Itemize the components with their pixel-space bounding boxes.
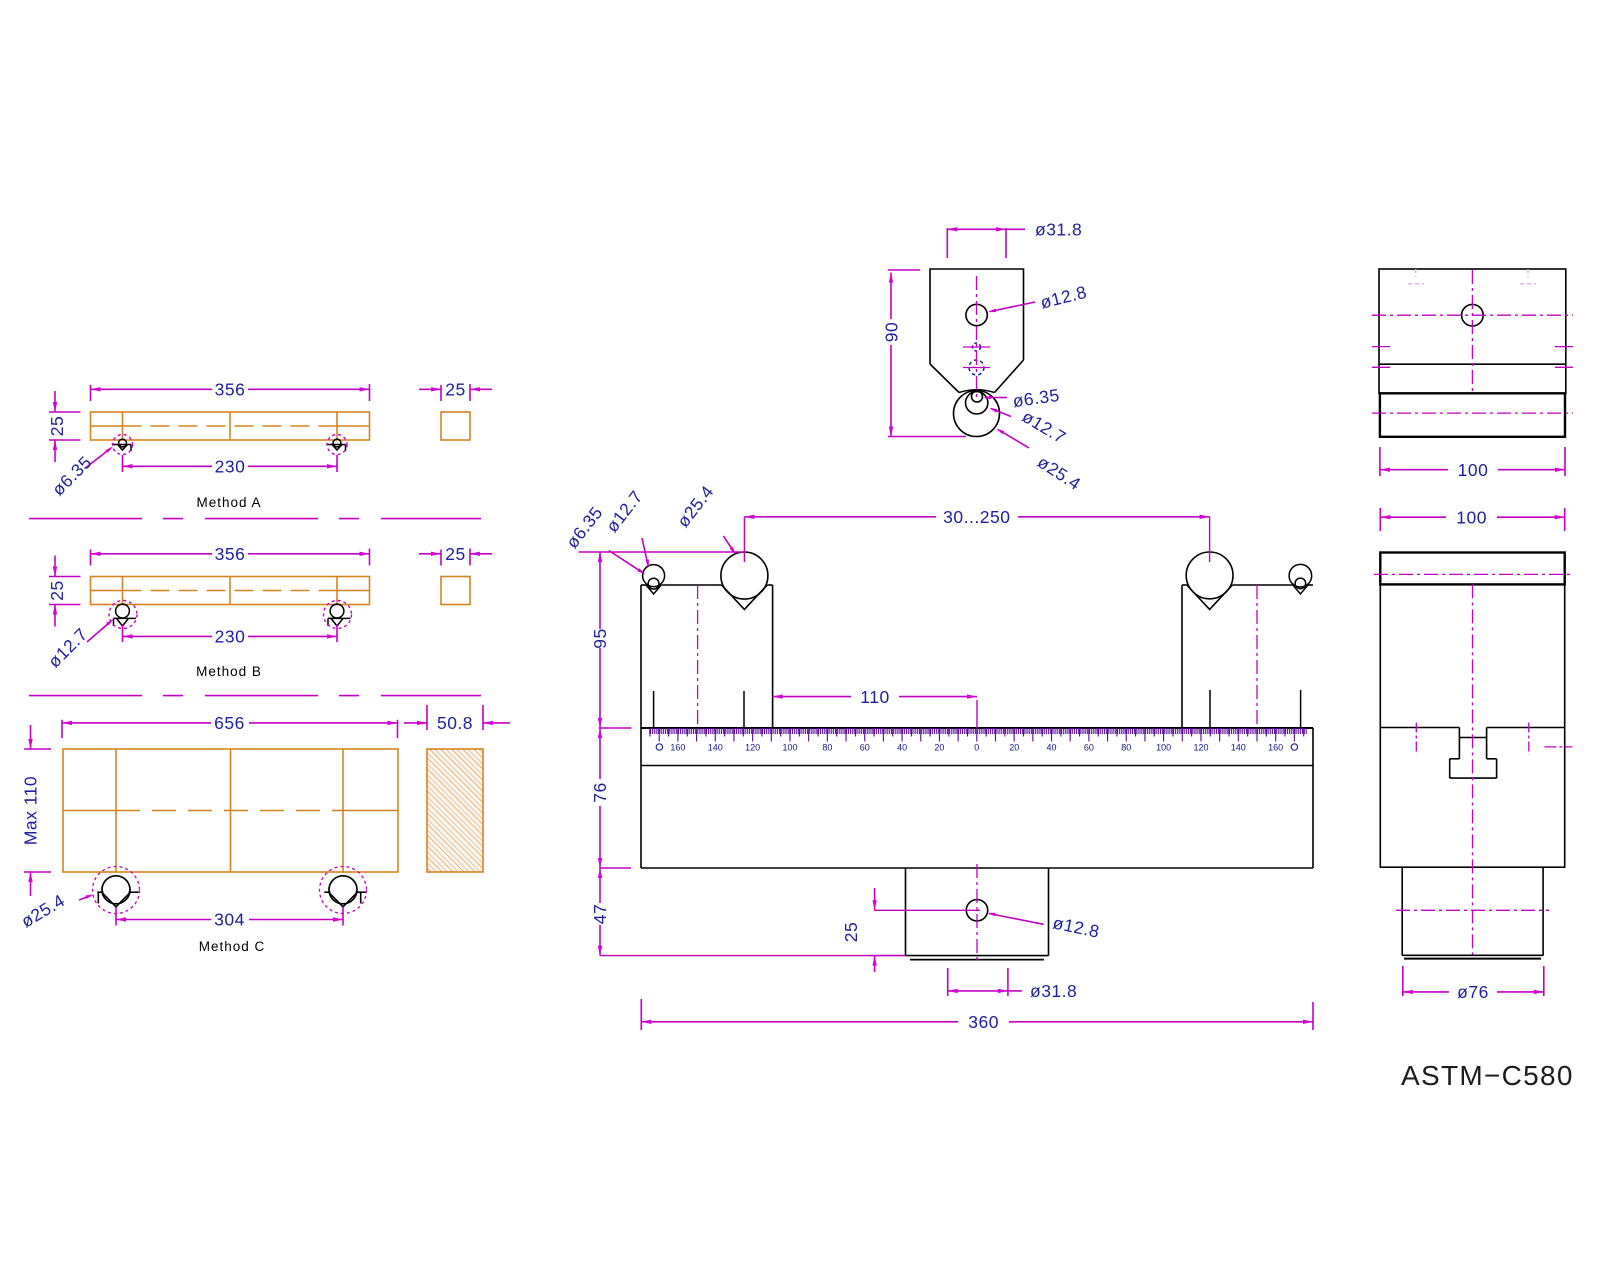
svg-text:60: 60 — [860, 742, 870, 752]
svg-text:40: 40 — [897, 742, 907, 752]
svg-text:120: 120 — [745, 742, 760, 752]
svg-text:356: 356 — [215, 380, 246, 400]
svg-text:20: 20 — [934, 742, 944, 752]
svg-text:100: 100 — [1456, 507, 1487, 527]
svg-text:25: 25 — [445, 380, 465, 400]
svg-text:25: 25 — [445, 544, 465, 564]
svg-text:40: 40 — [1046, 742, 1056, 752]
svg-text:50.8: 50.8 — [437, 713, 473, 733]
svg-text:ø76: ø76 — [1457, 982, 1489, 1002]
svg-text:Method C: Method C — [199, 939, 266, 954]
svg-text:230: 230 — [215, 457, 246, 477]
svg-text:100: 100 — [1156, 742, 1171, 752]
svg-text:80: 80 — [1121, 742, 1131, 752]
svg-text:230: 230 — [215, 627, 246, 647]
svg-text:Method A: Method A — [196, 495, 261, 510]
svg-text:80: 80 — [822, 742, 832, 752]
svg-text:47: 47 — [590, 904, 610, 924]
svg-text:140: 140 — [1231, 742, 1246, 752]
svg-text:304: 304 — [214, 910, 245, 930]
svg-text:110: 110 — [860, 687, 889, 707]
svg-text:100: 100 — [1458, 460, 1489, 480]
svg-text:Max 110: Max 110 — [21, 776, 41, 845]
svg-text:100: 100 — [782, 742, 797, 752]
svg-text:ASTM−C580: ASTM−C580 — [1401, 1060, 1574, 1091]
svg-text:0: 0 — [974, 742, 979, 752]
svg-text:356: 356 — [215, 544, 246, 564]
svg-text:ø31.8: ø31.8 — [1030, 981, 1077, 1001]
svg-text:20: 20 — [1009, 742, 1019, 752]
svg-text:140: 140 — [708, 742, 723, 752]
svg-text:76: 76 — [590, 782, 610, 802]
svg-text:ø31.8: ø31.8 — [1035, 220, 1082, 240]
svg-text:160: 160 — [670, 742, 685, 752]
svg-text:360: 360 — [968, 1012, 999, 1032]
svg-text:90: 90 — [881, 322, 901, 342]
svg-text:95: 95 — [590, 628, 610, 648]
svg-text:25: 25 — [841, 922, 861, 942]
svg-text:Method B: Method B — [196, 664, 262, 679]
svg-text:120: 120 — [1193, 742, 1208, 752]
svg-text:25: 25 — [47, 416, 67, 436]
svg-text:25: 25 — [47, 580, 67, 600]
svg-text:656: 656 — [214, 713, 245, 733]
svg-text:60: 60 — [1084, 742, 1094, 752]
svg-text:160: 160 — [1268, 742, 1283, 752]
svg-text:30...250: 30...250 — [943, 507, 1010, 527]
